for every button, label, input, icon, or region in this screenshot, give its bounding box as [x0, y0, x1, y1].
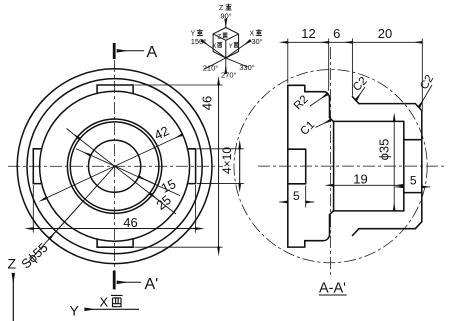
leader C2 collar [356, 87, 365, 100]
circle tab base φ42 [40, 91, 190, 241]
svg-text:5: 5 [293, 189, 300, 203]
svg-text:150°: 150° [191, 37, 207, 46]
svg-text:20: 20 [378, 26, 392, 41]
svg-text:5: 5 [410, 174, 417, 188]
leader φ42 diagonal [47, 135, 183, 198]
axis line 210 deg [204, 58, 226, 69]
axis Y arrow bottom [85, 308, 139, 310]
bore left end wall [333, 121, 335, 210]
svg-text:X: X [100, 295, 109, 310]
sphere silhouette circle Sφ55 [17, 69, 212, 264]
dim 46 bottom: dimension line [33, 228, 195, 230]
svg-text:ϕ35: ϕ35 [377, 139, 392, 161]
dim 46 bottom: extension lines [32, 185, 34, 233]
svg-text:A': A' [145, 276, 159, 293]
bore φ35 top edge [333, 120, 404, 122]
leader φ25 diagonal [80, 139, 176, 214]
svg-text:46: 46 [123, 215, 137, 230]
chamfer C2 left bottom [352, 229, 359, 236]
svg-text:19: 19 [353, 171, 367, 186]
axis line 330 deg [226, 58, 248, 67]
extension line left face [287, 39, 289, 84]
chamfer C1 bottom [330, 211, 334, 215]
extension line flange right [328, 39, 330, 91]
tab south [97, 239, 133, 247]
cube internal edges [213, 34, 239, 58]
axis line Z up [225, 19, 227, 28]
cube hexagon outline [213, 28, 239, 58]
extension line right face [421, 39, 423, 110]
svg-text:6: 6 [333, 26, 340, 41]
dim 4x10: dimension line [239, 149, 241, 184]
hole φ15 right top [404, 139, 422, 141]
cube face label Y-men [234, 43, 239, 48]
hole φ15 right bottom [404, 192, 422, 194]
svg-text:4×10: 4×10 [220, 147, 234, 174]
dim 5 right (outside arrows) [395, 186, 404, 188]
leader C2 right [419, 85, 432, 107]
tab bottom section [288, 241, 305, 247]
extension line collar left [351, 39, 353, 96]
svg-text:X: X [212, 44, 216, 50]
svg-text:12: 12 [301, 26, 315, 41]
bore φ35 bottom edge [333, 210, 404, 212]
dim 46 right: extension lines [135, 84, 223, 86]
circle hole φ15 [89, 140, 141, 192]
flange OD bottom with fillet R2 [305, 215, 330, 241]
flange OD top with fillet R2 [305, 92, 330, 118]
circle bore φ35 [70, 122, 159, 211]
svg-text:Z: Z [218, 35, 222, 41]
svg-text:90°: 90° [220, 12, 231, 21]
svg-text:330°: 330° [239, 63, 255, 72]
svg-text:A: A [147, 44, 158, 61]
centerline vertical left view [114, 60, 116, 270]
collar OD top [359, 103, 415, 105]
svg-text:Z: Z [8, 256, 17, 272]
collar OD bottom [359, 228, 415, 230]
section mark A' bottom [113, 271, 116, 290]
dim 46 right: dimension line [218, 85, 220, 247]
circle flange outer φ50 [27, 79, 202, 254]
cube face label Z-men [223, 33, 228, 38]
extension line for 5 left [305, 186, 307, 208]
dim 19 [333, 184, 404, 186]
tab top section [288, 85, 305, 91]
section mark A top [113, 43, 116, 59]
leader C1 [316, 120, 331, 127]
centerline horizontal left view [8, 165, 223, 167]
chamfer C2 right top [415, 104, 422, 111]
cube face label X-men [217, 43, 222, 48]
svg-text:30°: 30° [251, 37, 262, 46]
chamfer C1 top [330, 118, 334, 122]
bore bottom face [403, 121, 405, 210]
dim φ35 vertical [393, 121, 395, 210]
dim line top 12-6-20 [288, 41, 329, 43]
svg-text:46: 46 [200, 96, 215, 110]
hole φ15 left section box [288, 149, 306, 184]
kanji men (plane) [111, 295, 123, 306]
leader φ15 diagonal [91, 155, 180, 195]
axis line 150 deg [202, 40, 226, 58]
right end face [421, 111, 423, 222]
axis Z arrow bottom-left [12, 274, 14, 321]
tab west [33, 149, 41, 184]
svg-text:210°: 210° [203, 64, 219, 73]
dim 4x10: extension lines [197, 148, 244, 150]
axis line 30 deg [226, 40, 251, 58]
svg-text:270°: 270° [221, 71, 237, 80]
leader Sφ55 [28, 166, 115, 262]
svg-text:Y: Y [229, 44, 233, 50]
svg-text:A-A': A-A' [319, 281, 346, 297]
dim 5 left (outside arrows) [279, 201, 288, 203]
svg-text:Y: Y [70, 303, 80, 319]
circle bore chamfer [67, 119, 161, 213]
chamfer C2 right bottom [415, 222, 422, 229]
sphere phantom circle Sφ55 [234, 70, 427, 263]
tab north [97, 85, 133, 93]
centerline horizontal right view [258, 165, 447, 167]
left face of flange [287, 85, 289, 247]
axis line 270 deg down [225, 58, 227, 74]
tab east [188, 149, 196, 184]
centerline vertical sphere axis [330, 47, 332, 277]
leader R2 [310, 94, 327, 106]
chamfer C2 left top [352, 97, 359, 104]
